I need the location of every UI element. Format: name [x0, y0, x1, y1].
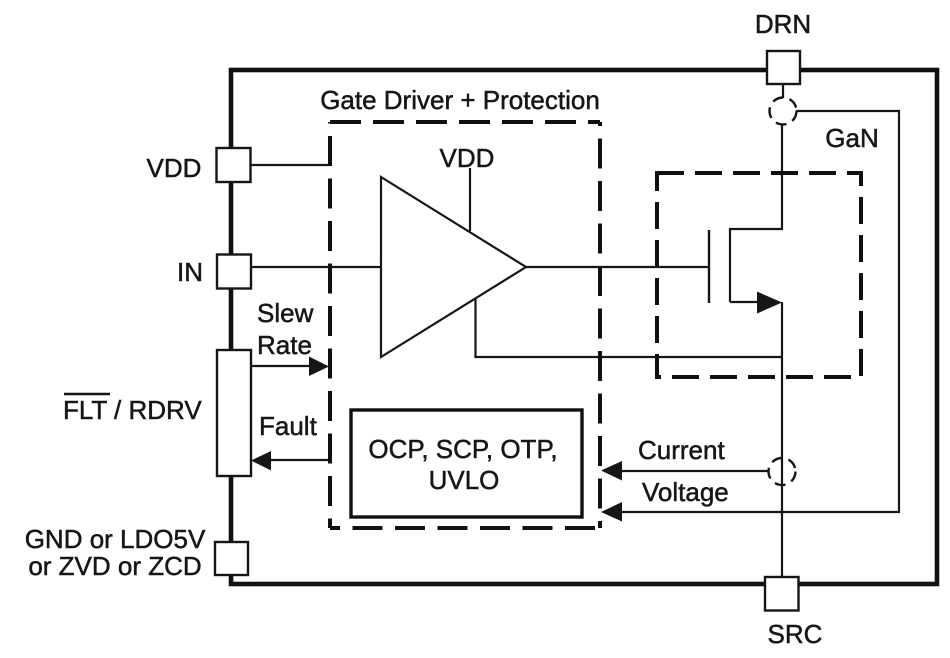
wire fault signal	[270, 459, 328, 461]
wire drain lead	[730, 124, 782, 302]
svg-text:Rate: Rate	[257, 330, 312, 360]
pin pad SRC	[765, 577, 799, 611]
wire slew rate control	[251, 365, 312, 367]
wire drain voltage sense	[604, 111, 899, 512]
GaN FET dashed block	[657, 173, 861, 377]
arrow voltage sense head	[601, 502, 622, 522]
pin pad DRN	[767, 51, 800, 84]
svg-text:VDD: VDD	[147, 153, 202, 183]
arrow slew rate head	[309, 357, 329, 377]
gate driver + protection dashed block left edge	[328, 122, 332, 528]
node drain terminal circle	[770, 98, 797, 125]
svg-text:GaN: GaN	[825, 123, 878, 153]
op-amp driver triangle	[381, 177, 526, 357]
svg-text:OCP, SCP, OTP,: OCP, SCP, OTP,	[368, 434, 557, 464]
svg-text:Gate Driver + Protection: Gate Driver + Protection	[320, 85, 600, 115]
wire source down to SRC pad	[781, 302, 783, 578]
OCP protection box U1	[351, 410, 582, 517]
wire source feedback to driver	[476, 297, 782, 357]
svg-text:Slew: Slew	[257, 298, 314, 328]
wire VDD pad to gate-driver block	[250, 164, 330, 166]
arrow current sense head	[601, 461, 622, 481]
gate driver + protection dashed block top edge	[330, 120, 600, 124]
svg-text:FLT / RDRV: FLT / RDRV	[63, 395, 202, 425]
svg-text:IN: IN	[177, 257, 203, 287]
svg-text:or ZVD or ZCD: or ZVD or ZCD	[28, 551, 201, 581]
svg-text:SRC: SRC	[768, 619, 823, 649]
wire driver output to GaN gate	[526, 266, 709, 268]
svg-text:VDD: VDD	[440, 143, 495, 173]
svg-text:Current: Current	[638, 435, 725, 465]
pin pad IN	[217, 255, 251, 289]
pin pad VDD	[217, 148, 251, 182]
wire source lead with arrow	[730, 301, 762, 303]
gate driver + protection dashed block bottom edge	[330, 526, 600, 530]
svg-text:Fault: Fault	[259, 411, 318, 441]
arrow fault head	[251, 451, 271, 471]
wire IN pad to driver input	[250, 266, 381, 268]
wire DRN pad stub	[782, 84, 784, 98]
pin block FLT/RDRV	[217, 350, 251, 476]
node source sense circle	[769, 458, 796, 485]
wire current sense	[604, 470, 769, 472]
transistor gate bar	[708, 230, 710, 303]
label FLT overline	[64, 393, 110, 396]
svg-text:Voltage: Voltage	[642, 477, 729, 507]
IC outer boundary box	[231, 70, 937, 584]
svg-text:UVLO: UVLO	[429, 465, 500, 495]
pin pad GND	[215, 542, 248, 575]
svg-text:GND or LDO5V: GND or LDO5V	[25, 524, 206, 554]
arrow source lead head	[757, 292, 782, 314]
wire VDD stem into driver	[469, 168, 471, 231]
gate driver + protection dashed block right edge	[598, 122, 602, 528]
svg-text:DRN: DRN	[755, 9, 811, 39]
